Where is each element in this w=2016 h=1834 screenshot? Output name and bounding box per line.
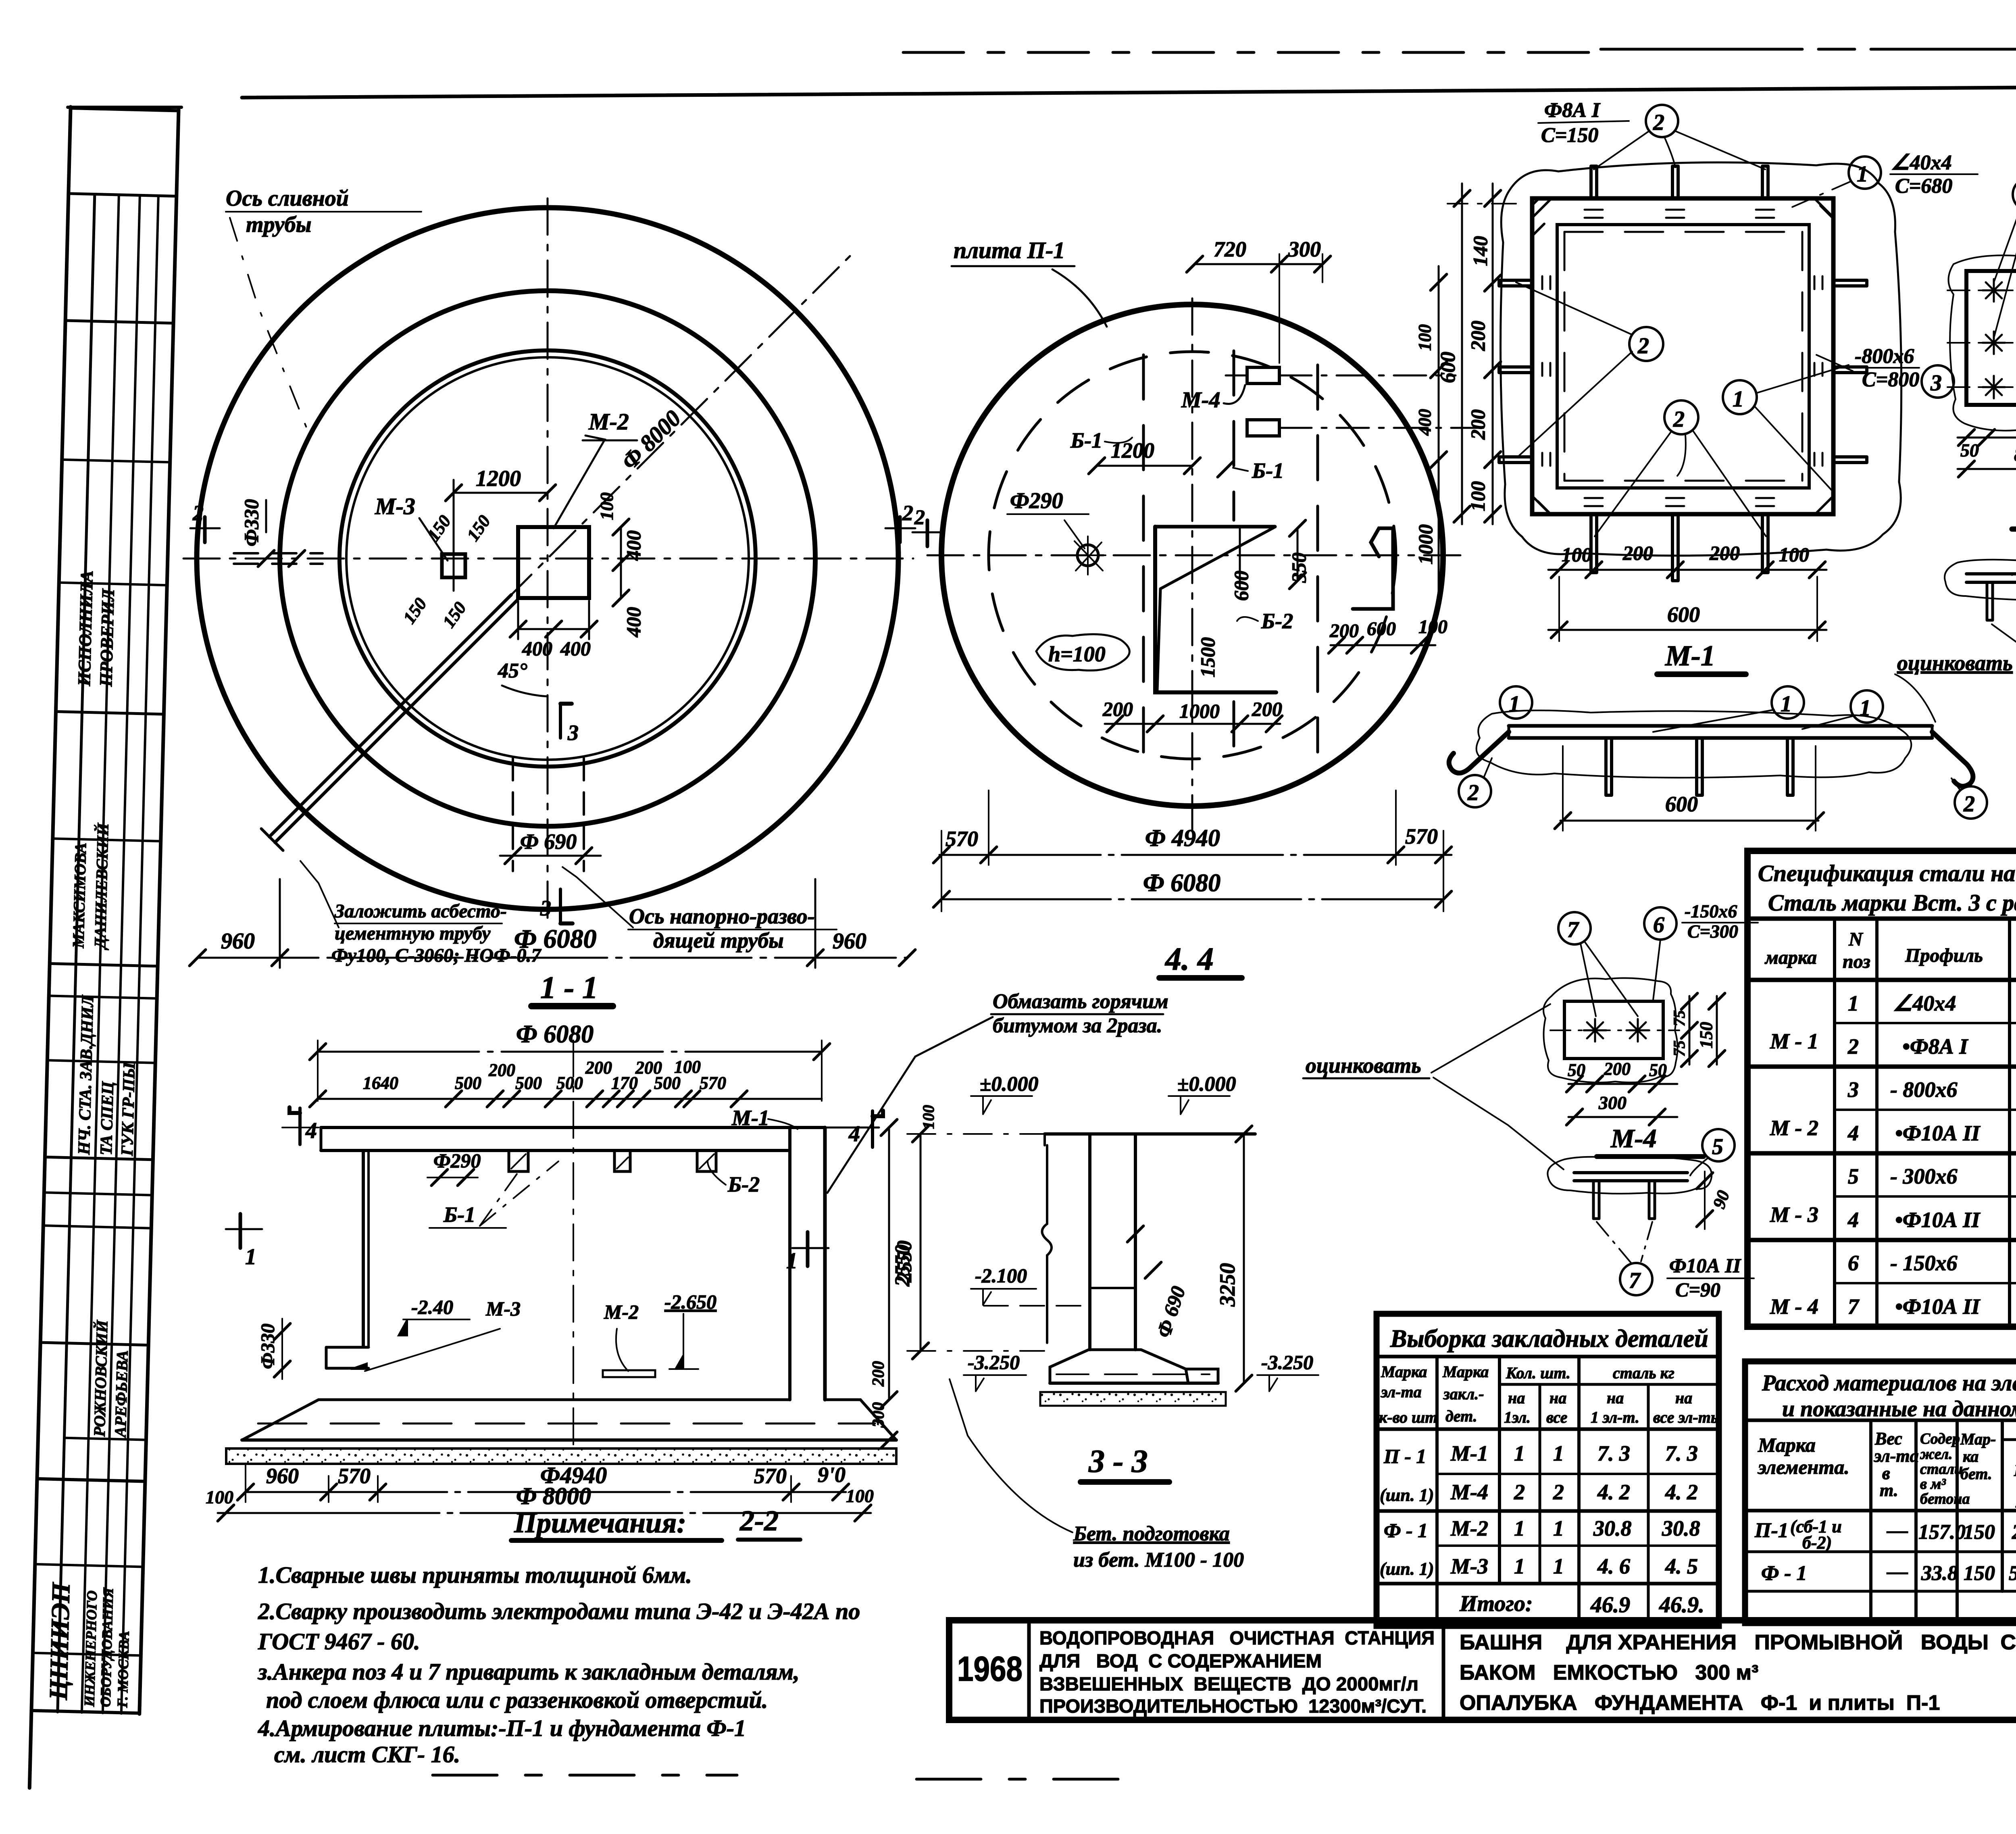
- bottom dims 50 700 50 / 800: [1958, 437, 2016, 439]
- slab axis centerline extended: [282, 1127, 879, 1128]
- svg-text:100: 100: [1415, 324, 1435, 351]
- svg-text:4: 4: [1847, 1121, 1859, 1145]
- side view: [1547, 1157, 1712, 1194]
- svg-text:1: 1: [1733, 387, 1744, 412]
- dims top 720/300: [1195, 263, 1322, 265]
- svg-text:30.8: 30.8: [1593, 1516, 1632, 1540]
- svg-text:1эл.: 1эл.: [1504, 1408, 1531, 1426]
- left wall foot box: [326, 1347, 369, 1368]
- svg-text:•Ф10А II: •Ф10А II: [1895, 1208, 1981, 1232]
- svg-text:С=800: С=800: [1862, 368, 1919, 391]
- svg-text:Марка: Марка: [1758, 1434, 1816, 1456]
- svg-text:Сталь марки Вст. 3 с расчет: Сталь марки Вст. 3 с расчетным сопрот. R…: [1768, 890, 2016, 916]
- hooks at ends: [1449, 732, 1509, 773]
- hidden strip edges (long dash): [1142, 355, 1145, 766]
- svg-text:75: 75: [1670, 1040, 1688, 1057]
- svg-text:Ф 8000: Ф 8000: [516, 1483, 591, 1509]
- svg-text:Ф8А I: Ф8А I: [1544, 99, 1601, 122]
- diagonal axis 45deg: [286, 251, 855, 820]
- svg-text:С=90: С=90: [1675, 1278, 1720, 1301]
- svg-text:Бет. подготовка: Бет. подготовка: [1073, 1522, 1230, 1545]
- svg-text:- 150х6: - 150х6: [1890, 1251, 1957, 1275]
- svg-text:1.Сварные швы приняты толщиной: 1.Сварные швы приняты толщиной 6мм.: [258, 1562, 692, 1588]
- svg-text:жел.: жел.: [1920, 1446, 1953, 1463]
- svg-text:битумом за 2раза.: битумом за 2раза.: [993, 1014, 1162, 1037]
- svg-text:4. 2: 4. 2: [1597, 1480, 1630, 1504]
- left wall: [362, 1150, 365, 1347]
- svg-text:ИСПОЛНИЛА: ИСПОЛНИЛА: [74, 570, 97, 687]
- svg-text:46.9: 46.9: [1590, 1592, 1630, 1617]
- dim 1200 inside: [1097, 465, 1192, 467]
- central opening with bent bar: [1155, 527, 1276, 692]
- bottom dim line F6080 / 960: [198, 957, 907, 959]
- svg-text:Расход материалов на элемен: Расход материалов на элементы, замаркиро…: [1762, 1371, 2016, 1396]
- svg-text:из бет. М100 - 100: из бет. М100 - 100: [1073, 1548, 1244, 1571]
- section 2 mark at left rim: [926, 520, 929, 546]
- svg-text:200: 200: [585, 1058, 612, 1077]
- svg-text:2-2: 2-2: [739, 1505, 779, 1537]
- svg-text:45°: 45°: [498, 659, 527, 682]
- svg-text:Примечания:: Примечания:: [514, 1507, 686, 1539]
- svg-text:960: 960: [221, 929, 255, 954]
- svg-text:500: 500: [515, 1073, 542, 1093]
- svg-text:ПРОВЕРИЛ: ПРОВЕРИЛ: [96, 588, 118, 687]
- svg-text:200: 200: [1604, 1059, 1631, 1079]
- stud anchor ticks inside border: [1585, 210, 1774, 218]
- svg-text:—: —: [1887, 1519, 1908, 1542]
- svg-text:Ф 6080: Ф 6080: [516, 1021, 594, 1048]
- svg-text:М-2: М-2: [604, 1300, 639, 1323]
- svg-text:2: 2: [914, 506, 925, 529]
- svg-text:1500: 1500: [1196, 637, 1219, 677]
- svg-text:1: 1: [1553, 1554, 1564, 1578]
- section marks 4 (top): [298, 1108, 302, 1144]
- svg-text:33.8: 33.8: [1921, 1562, 1958, 1585]
- note bottom-left: [331, 900, 541, 966]
- svg-text:П - 1: П - 1: [1383, 1445, 1427, 1467]
- svg-text:200: 200: [1329, 620, 1359, 642]
- svg-text:1: 1: [1848, 991, 1859, 1015]
- vyborka table frame: [1377, 1314, 1719, 1626]
- svg-text:ТА СПЕЦ: ТА СПЕЦ: [97, 1081, 117, 1155]
- svg-text:6: 6: [1848, 1251, 1859, 1275]
- svg-text:Ф - 1: Ф - 1: [1761, 1562, 1807, 1585]
- svg-text:ВОДОПРОВОДНАЯ ОЧИСТНАЯ СТАН: ВОДОПРОВОДНАЯ ОЧИСТНАЯ СТАНЦИЯ: [1039, 1627, 1435, 1649]
- svg-text:см. лист СКГ- 16.: см. лист СКГ- 16.: [274, 1741, 460, 1767]
- svg-text:150: 150: [423, 512, 455, 545]
- svg-text:5: 5: [1712, 1134, 1723, 1159]
- svg-text:ВЗВЕШЕННЫХ ВЕЩЕСТВ ДО 2000мг: ВЗВЕШЕННЫХ ВЕЩЕСТВ ДО 2000мг/л: [1039, 1673, 1418, 1694]
- svg-text:все: все: [1546, 1408, 1567, 1426]
- svg-text:Марка: Марка: [1381, 1363, 1427, 1381]
- right vertical dim 2550: [888, 1127, 890, 1400]
- data: [1770, 991, 2016, 1319]
- svg-text:М - 3: М - 3: [1770, 1203, 1818, 1227]
- svg-text:сталь кг: сталь кг: [1613, 1364, 1674, 1382]
- outer square: [1532, 198, 1833, 514]
- left dim chain: [1492, 183, 1494, 524]
- svg-text:•Ф8А I: •Ф8А I: [1902, 1034, 1968, 1059]
- outer circle F8000: [197, 208, 898, 909]
- overflow pipe (double line) lower-left: [269, 595, 511, 837]
- svg-text:дет.: дет.: [1445, 1407, 1477, 1425]
- svg-text:1: 1: [245, 1244, 256, 1269]
- bottom projection dashed lines and F690: [512, 758, 514, 871]
- svg-text:2: 2: [1553, 1480, 1564, 1504]
- callout: -800x6 C=800 with circle 3: [1855, 345, 1919, 391]
- svg-text:1: 1: [1860, 696, 1871, 721]
- svg-text:400: 400: [622, 607, 645, 638]
- svg-text:4. 6: 4. 6: [1597, 1554, 1630, 1578]
- sub row lines: [1835, 1022, 2016, 1024]
- centerlines: [183, 558, 913, 560]
- svg-text:Ф 4940: Ф 4940: [1145, 825, 1220, 851]
- svg-text:570: 570: [700, 1073, 726, 1093]
- svg-text:П-1: П-1: [1754, 1519, 1789, 1542]
- title block texts: [957, 1627, 2016, 1717]
- svg-text:2550: 2550: [893, 1240, 916, 1283]
- bottom dim chains: [1548, 569, 1826, 571]
- svg-text:2.5: 2.5: [2012, 1521, 2016, 1544]
- svg-text:М - 1: М - 1: [1770, 1029, 1818, 1053]
- svg-text:960: 960: [833, 929, 866, 954]
- inner dashes along angle legs: [1564, 231, 1802, 233]
- svg-text:500: 500: [455, 1073, 481, 1093]
- svg-text:М - 2: М - 2: [1770, 1116, 1818, 1140]
- dims right 75/75/150: [1689, 996, 1691, 1065]
- dims around central square: 400/400 bottom, 400/100/400 right: [518, 628, 589, 630]
- svg-text:(шп. 1): (шп. 1): [1380, 1559, 1434, 1579]
- svg-text:200: 200: [1466, 409, 1489, 440]
- svg-text:570: 570: [946, 827, 978, 851]
- svg-text:300: 300: [1288, 237, 1321, 261]
- svg-text:М-4: М-4: [1181, 388, 1220, 413]
- svg-text:на: на: [1607, 1389, 1624, 1407]
- svg-text:2: 2: [1847, 1034, 1859, 1059]
- svg-text:800: 800: [2014, 443, 2016, 465]
- svg-text:ЦНИИЭП: ЦНИИЭП: [44, 1582, 75, 1701]
- svg-text:157.0: 157.0: [1918, 1521, 1966, 1544]
- svg-text:75: 75: [1670, 1010, 1688, 1026]
- svg-text:Ось сливной: Ось сливной: [226, 186, 349, 211]
- svg-text:7: 7: [1567, 917, 1579, 942]
- svg-text:7: 7: [1848, 1294, 1860, 1319]
- svg-text:цементную трубу: цементную трубу: [335, 923, 491, 944]
- svg-text:бетона: бетона: [1920, 1490, 1970, 1507]
- svg-text:-2.40: -2.40: [411, 1296, 453, 1318]
- slab circle F6080: [941, 304, 1443, 806]
- svg-text:7: 7: [1629, 1268, 1641, 1293]
- callout 4 + label: [2013, 178, 2016, 210]
- svg-text:•Ф10А II: •Ф10А II: [1895, 1121, 1981, 1145]
- anchor pockets under slab: [509, 1150, 528, 1171]
- callout: (1) L40x4 C=680: [1849, 156, 1881, 189]
- svg-text:Кол. шт.: Кол. шт.: [1506, 1364, 1570, 1382]
- svg-text:—: —: [1887, 1560, 1908, 1583]
- svg-text:в м³: в м³: [1920, 1476, 1946, 1492]
- svg-text:100: 100: [206, 1487, 233, 1507]
- group separator full lines: [1747, 1065, 2016, 1069]
- svg-text:2: 2: [1963, 792, 1975, 817]
- svg-text:4. 5: 4. 5: [1665, 1554, 1698, 1578]
- svg-text:2.Сварку производить электро: 2.Сварку производить электродами типа Э-…: [258, 1598, 860, 1624]
- svg-text:оцинковать: оцинковать: [1306, 1053, 1421, 1077]
- svg-text:Марка: Марка: [1442, 1363, 1489, 1381]
- top dim F6080: [318, 1051, 822, 1053]
- right column: [788, 1127, 791, 1400]
- svg-text:200: 200: [869, 1361, 888, 1387]
- svg-text:к-во шт: к-во шт: [1379, 1408, 1437, 1426]
- svg-text:1: 1: [786, 1248, 798, 1273]
- lean concrete strip with grit: [226, 1448, 896, 1464]
- svg-text:4: 4: [848, 1121, 860, 1146]
- column: [1088, 1134, 1091, 1350]
- svg-text:М-2: М-2: [1450, 1516, 1488, 1540]
- svg-text:1: 1: [1781, 692, 1792, 717]
- svg-text:7. 3: 7. 3: [1665, 1441, 1698, 1465]
- svg-text:1968: 1968: [957, 1650, 1023, 1688]
- svg-text:200: 200: [1622, 542, 1653, 564]
- svg-text:2: 2: [1653, 110, 1664, 135]
- small plate under slab middle: [603, 1370, 655, 1377]
- svg-text:на: на: [1675, 1389, 1692, 1407]
- callout circles: [1500, 686, 1532, 719]
- svg-text:100: 100: [1562, 543, 1592, 566]
- svg-text:бет.: бет.: [1960, 1465, 1992, 1483]
- svg-text:Ф 690: Ф 690: [520, 829, 577, 854]
- svg-text:Профиль: Профиль: [1905, 945, 1983, 966]
- svg-text:1: 1: [1514, 1554, 1525, 1578]
- svg-text:4: 4: [1847, 1208, 1859, 1232]
- svg-text:500: 500: [556, 1073, 583, 1093]
- svg-text:1: 1: [1514, 1441, 1525, 1465]
- svg-text:150: 150: [1696, 1022, 1716, 1048]
- lower dim rows: [939, 854, 1452, 856]
- level marks and labels: [411, 1290, 716, 1323]
- svg-text:Спецификация стали на одну: Спецификация стали на одну штуку каждой …: [1758, 860, 2016, 886]
- concrete prep note: [1073, 1522, 1244, 1571]
- svg-text:∠40х4: ∠40х4: [1893, 991, 1956, 1015]
- galvanize cloud outline: [1477, 711, 1912, 778]
- right small dims 200 600 100: [1331, 644, 1435, 646]
- svg-text:3250: 3250: [1215, 1263, 1239, 1307]
- svg-text:БАШНЯ ДЛЯ ХРАНЕНИЯ ПРОМЫВ: БАШНЯ ДЛЯ ХРАНЕНИЯ ПРОМЫВНОЙ ВОДЫ С: [1460, 1630, 2016, 1654]
- svg-text:Обмазать горячим: Обмазать горячим: [993, 990, 1168, 1013]
- dim 1200: [454, 492, 548, 494]
- svg-text:∠40х4: ∠40х4: [1891, 151, 1952, 174]
- svg-text:Б-2: Б-2: [727, 1172, 760, 1196]
- title block frame: [949, 1620, 2016, 1720]
- svg-text:Б-1: Б-1: [1252, 458, 1284, 483]
- svg-text:170: 170: [611, 1073, 638, 1093]
- bolt crosses (6): [1983, 279, 2016, 398]
- bottom studs (longer): [1591, 514, 1768, 581]
- svg-text:-800х6: -800х6: [1855, 345, 1914, 368]
- bitumen note: [993, 990, 1168, 1037]
- svg-text:150: 150: [399, 594, 431, 627]
- stamp rotated signature texts: [44, 570, 158, 1708]
- svg-text:960: 960: [266, 1464, 299, 1488]
- svg-text:150: 150: [463, 512, 494, 545]
- callouts 7 and 6 above: [1558, 912, 1591, 944]
- svg-text:закл.-: закл.-: [1443, 1385, 1484, 1403]
- svg-text:±0.000: ±0.000: [980, 1073, 1039, 1096]
- svg-text:Итого:: Итого:: [1459, 1591, 1533, 1616]
- svg-text:ИНЖЕНЕРНОГО: ИНЖЕНЕРНОГО: [81, 1590, 100, 1707]
- plan: wavy outline + rect: [1543, 978, 1678, 1082]
- svg-text:Ф 6080: Ф 6080: [1143, 869, 1220, 897]
- svg-text:100: 100: [1418, 616, 1447, 638]
- svg-text:1: 1: [1514, 1516, 1525, 1540]
- svg-text:1200: 1200: [476, 466, 521, 491]
- svg-text:-150х6: -150х6: [1685, 901, 1737, 921]
- svg-text:52.9: 52.9: [2009, 1562, 2016, 1585]
- svg-text:Ф 690: Ф 690: [1152, 1283, 1189, 1340]
- svg-text:3: 3: [1847, 1077, 1859, 1102]
- svg-text:2: 2: [192, 501, 204, 525]
- slab band: [321, 1126, 825, 1129]
- svg-text:9'0: 9'0: [818, 1463, 846, 1487]
- svg-text:720: 720: [1214, 237, 1246, 261]
- svg-text:400: 400: [560, 637, 591, 660]
- svg-text:Ф10А II: Ф10А II: [1669, 1254, 1741, 1277]
- svg-text:Выборка закладных деталей: Выборка закладных деталей: [1390, 1325, 1708, 1353]
- bottom dashed frame remnants: [433, 1774, 737, 1777]
- svg-text:Б-1: Б-1: [1070, 428, 1102, 452]
- svg-text:300: 300: [1598, 1092, 1627, 1113]
- svg-text:2: 2: [1637, 333, 1649, 358]
- plate: [1509, 724, 1932, 728]
- section mark 2-2 left / right: [203, 517, 207, 542]
- header texts: [1764, 923, 2016, 984]
- svg-text:Б-1: Б-1: [443, 1203, 475, 1227]
- svg-text:3: 3: [567, 721, 579, 745]
- svg-text:4. 2: 4. 2: [1665, 1480, 1698, 1504]
- svg-text:100: 100: [1779, 543, 1809, 566]
- inner square: [1557, 225, 1809, 488]
- svg-text:200: 200: [488, 1060, 515, 1080]
- callout: F8AI C=150 with circle 2: [1541, 99, 1601, 147]
- svg-text:1 эл-т.: 1 эл-т.: [1591, 1408, 1639, 1426]
- left stamp column (skewed): [29, 107, 179, 1790]
- vyborka header texts: [1379, 1363, 1722, 1426]
- center axis: [573, 1040, 574, 1452]
- left studs: [1499, 280, 1532, 463]
- svg-text:570: 570: [338, 1464, 371, 1488]
- top studs: [1591, 166, 1768, 198]
- svg-text:Мар-: Мар-: [1960, 1430, 1996, 1448]
- svg-text:100: 100: [919, 1105, 937, 1129]
- svg-text:Фу100, С-3060; НОФ-0.7: Фу100, С-3060; НОФ-0.7: [331, 945, 541, 966]
- svg-text:1640: 1640: [363, 1073, 398, 1093]
- section marks 1: [226, 1228, 262, 1230]
- dim 2550 left: [920, 1134, 922, 1351]
- svg-text:плита П-1: плита П-1: [954, 237, 1065, 263]
- svg-text:200: 200: [1252, 698, 1282, 720]
- svg-text:БАКОМ ЕМКОСТЬЮ 300 м³: БАКОМ ЕМКОСТЬЮ 300 м³: [1460, 1661, 1758, 1684]
- svg-text:100: 100: [674, 1057, 701, 1077]
- svg-text:570: 570: [1405, 824, 1438, 848]
- svg-text:ДЛЯ ВОД С СОДЕРЖАНИЕМ: ДЛЯ ВОД С СОДЕРЖАНИЕМ: [1039, 1650, 1322, 1671]
- corner hatching: [1532, 198, 1833, 514]
- svg-text:Заложить асбесто-: Заложить асбесто-: [334, 900, 507, 922]
- small square M-3 on axis: [442, 554, 465, 577]
- 45 deg arc + label: [502, 686, 548, 696]
- centerlines: [927, 554, 1468, 556]
- svg-text:46.9.: 46.9.: [1659, 1592, 1704, 1617]
- svg-text:N: N: [1848, 929, 1864, 950]
- spec table column lines: [1833, 919, 1836, 1327]
- small circle F290: [1077, 545, 1098, 566]
- svg-text:h=100: h=100: [1048, 642, 1106, 666]
- central anchor square M-2: [518, 527, 589, 598]
- svg-text:2: 2: [1514, 1480, 1525, 1504]
- svg-text:3 - 3: 3 - 3: [1088, 1444, 1148, 1479]
- svg-text:570: 570: [754, 1464, 787, 1488]
- svg-text:1000: 1000: [1414, 524, 1437, 565]
- svg-text:эл-та: эл-та: [1380, 1383, 1422, 1401]
- dashed circle F4940: [989, 352, 1396, 759]
- svg-text:- 800х6: - 800х6: [1890, 1077, 1957, 1102]
- svg-text:М-1: М-1: [1665, 640, 1715, 672]
- svg-text:и показанные на данном: и показанные на данном листе: [1782, 1396, 2016, 1421]
- svg-text:поз: поз: [1843, 951, 1870, 972]
- svg-text:200: 200: [1466, 321, 1489, 351]
- dim 600: [1560, 820, 1818, 822]
- svg-text:-3.250: -3.250: [1261, 1351, 1313, 1373]
- svg-text:90: 90: [1709, 1188, 1733, 1211]
- svg-text:±0.000: ±0.000: [1177, 1073, 1236, 1096]
- svg-text:400: 400: [622, 530, 645, 561]
- svg-text:-3.250: -3.250: [968, 1351, 1020, 1373]
- svg-text:2: 2: [1673, 407, 1685, 432]
- svg-text:М-2: М-2: [588, 408, 629, 435]
- left thin wall with break: [1042, 1145, 1052, 1343]
- svg-text:600: 600: [1367, 618, 1396, 640]
- lean strip: [1040, 1392, 1226, 1406]
- foundation: [242, 1400, 896, 1440]
- svg-text:1: 1: [1857, 162, 1868, 187]
- svg-text:150: 150: [1964, 1521, 1995, 1544]
- svg-text:марка: марка: [1764, 947, 1817, 968]
- svg-text:Ф330: Ф330: [240, 499, 262, 546]
- svg-text:600: 600: [1667, 602, 1700, 627]
- svg-text:2: 2: [1467, 780, 1479, 805]
- svg-text:Г. МОСКВА: Г. МОСКВА: [114, 1631, 132, 1708]
- svg-text:- 300х6: - 300х6: [1890, 1164, 1957, 1188]
- svg-text:М-3: М-3: [1450, 1554, 1488, 1578]
- section 3 marks: [559, 704, 562, 738]
- header sublines: [2002, 1438, 2016, 1441]
- svg-text:300: 300: [869, 1402, 888, 1428]
- svg-text:М-3: М-3: [485, 1297, 521, 1320]
- svg-text:4.Армирование плиты:-П-1 и ф: 4.Армирование плиты:-П-1 и фундамента Ф-…: [258, 1715, 746, 1741]
- svg-text:400: 400: [522, 637, 552, 660]
- svg-text:1: 1: [1509, 692, 1520, 717]
- vyborka data cells: [1380, 1441, 1704, 1617]
- bottom dims 200 1000 200: [1105, 723, 1280, 725]
- svg-text:100: 100: [846, 1486, 874, 1506]
- svg-text:7. 3: 7. 3: [1597, 1441, 1630, 1465]
- svg-text:Ф330: Ф330: [257, 1323, 279, 1369]
- svg-text:РОЖНОВСКИЙ: РОЖНОВСКИЙ: [90, 1319, 111, 1438]
- svg-text:ДАНИЛЕВСКИЙ: ДАНИЛЕВСКИЙ: [91, 822, 112, 950]
- svg-text:6: 6: [1653, 913, 1664, 938]
- svg-text:2: 2: [902, 501, 913, 525]
- svg-text:Ф290: Ф290: [1010, 488, 1063, 513]
- svg-text:Ф - 1: Ф - 1: [1384, 1519, 1428, 1542]
- svg-text:200: 200: [1102, 698, 1133, 720]
